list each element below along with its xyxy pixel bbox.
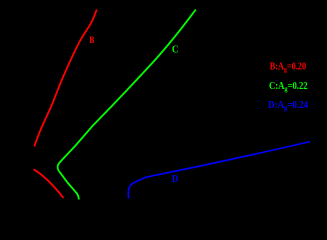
- svg-text:C:Ag=0.22: C:Ag=0.22: [269, 82, 308, 94]
- svg-text:B: B: [89, 34, 94, 45]
- svg-text:C: C: [172, 44, 179, 56]
- svg-text:D: D: [172, 173, 179, 185]
- svg-text:D:Ag=0.24: D:Ag=0.24: [268, 101, 308, 112]
